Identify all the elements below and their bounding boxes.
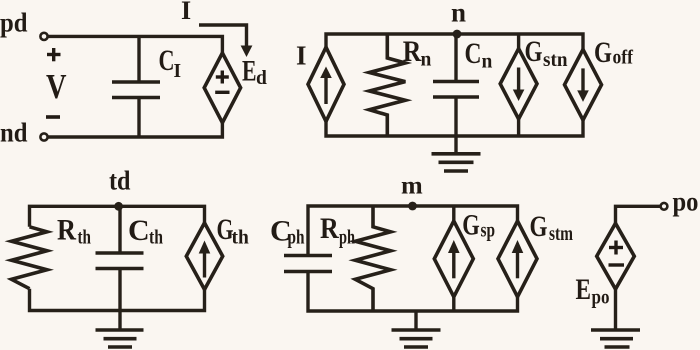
svg-text:E: E	[576, 273, 592, 306]
ground E_po	[591, 330, 640, 347]
label R_n	[403, 35, 432, 71]
svg-text:C: C	[128, 214, 150, 247]
svg-text:I: I	[174, 61, 182, 82]
svg-text:C: C	[465, 37, 482, 70]
svg-text:C: C	[159, 44, 175, 77]
label E_d	[242, 55, 267, 90]
svg-text:E: E	[242, 55, 257, 88]
label G_off	[594, 36, 633, 69]
svg-text:po: po	[673, 187, 699, 217]
svg-text:R: R	[320, 212, 339, 245]
label E_po	[576, 273, 610, 309]
svg-text:R: R	[57, 214, 76, 247]
node td dot	[109, 166, 131, 211]
svg-text:ph: ph	[339, 228, 355, 249]
ground m circuit	[392, 311, 441, 347]
node m dot	[401, 172, 423, 210]
capacitor CI	[112, 36, 160, 137]
svg-text:d: d	[256, 68, 267, 89]
label minus of V	[46, 115, 60, 119]
svg-text:n: n	[451, 0, 466, 28]
wire pd top rail to Ed apex	[48, 36, 222, 53]
resistor Rph	[355, 206, 390, 311]
wire td top rail	[30, 206, 205, 227]
controlled source G_sp diamond	[434, 221, 473, 297]
svg-text:G: G	[462, 209, 480, 242]
controlled source G_off diamond	[565, 49, 602, 120]
svg-text:stn: stn	[543, 50, 568, 71]
current source I diamond	[308, 47, 344, 121]
svg-text:off: off	[613, 48, 634, 69]
label C_th	[128, 214, 163, 249]
capacitor Cth	[96, 206, 144, 310]
resistor Rth	[12, 227, 48, 289]
dependent source Ed diamond	[204, 53, 240, 123]
controlled source G_stm diamond	[498, 221, 537, 297]
controlled source G_th diamond	[186, 223, 222, 290]
svg-text:I: I	[181, 0, 191, 25]
node n dot	[451, 0, 466, 38]
node nd	[0, 118, 48, 148]
svg-text:G: G	[594, 36, 612, 69]
current arrow I into Ed	[199, 25, 252, 57]
wire nd bottom rail to Ed bottom	[48, 123, 222, 137]
svg-text:nd: nd	[0, 118, 28, 148]
label G_stm	[530, 210, 574, 245]
svg-text:m: m	[401, 172, 423, 199]
label C_I	[159, 44, 182, 82]
svg-text:th: th	[232, 228, 249, 249]
svg-text:V: V	[46, 68, 67, 106]
resistor Rn	[369, 34, 405, 136]
wire m bottom rail	[308, 272, 518, 312]
label C_n	[465, 37, 493, 73]
label G_stn	[525, 35, 568, 71]
label C_ph	[270, 215, 305, 249]
label + of V	[47, 48, 61, 61]
svg-text:G: G	[525, 35, 543, 68]
wire stub G_stn	[517, 34, 520, 136]
svg-text:td: td	[109, 166, 131, 196]
svg-text:n: n	[482, 52, 493, 73]
svg-text:po: po	[592, 288, 610, 309]
label R_th	[57, 214, 91, 249]
wire n top rail	[326, 34, 583, 49]
svg-text:pd: pd	[0, 8, 28, 38]
svg-text:I: I	[296, 41, 307, 71]
svg-text:th: th	[78, 228, 92, 249]
svg-text:ph: ph	[288, 228, 305, 249]
wire m top rail	[308, 206, 518, 256]
wire E_po to ground	[614, 289, 617, 330]
svg-text:sp: sp	[481, 221, 496, 242]
controlled source G_stn diamond	[500, 49, 537, 119]
label R_ph	[320, 212, 355, 249]
ground td circuit	[96, 311, 144, 348]
capacitor Cn	[433, 34, 479, 136]
svg-text:th: th	[149, 228, 163, 249]
svg-text:G: G	[530, 210, 548, 243]
wire n bottom rail	[326, 120, 583, 136]
source E_po diamond	[597, 223, 635, 289]
svg-text:R: R	[403, 35, 422, 68]
ground n circuit	[432, 136, 481, 171]
node pd	[0, 8, 48, 41]
label G_sp	[462, 209, 495, 242]
wire td bottom rail	[30, 289, 205, 311]
svg-text:stm: stm	[549, 224, 573, 245]
svg-text:n: n	[421, 50, 432, 71]
wire po	[616, 206, 661, 223]
node po	[661, 187, 699, 217]
wire stub G_sp	[452, 206, 455, 311]
capacitor Cph	[284, 256, 332, 272]
label G_th	[217, 213, 249, 249]
